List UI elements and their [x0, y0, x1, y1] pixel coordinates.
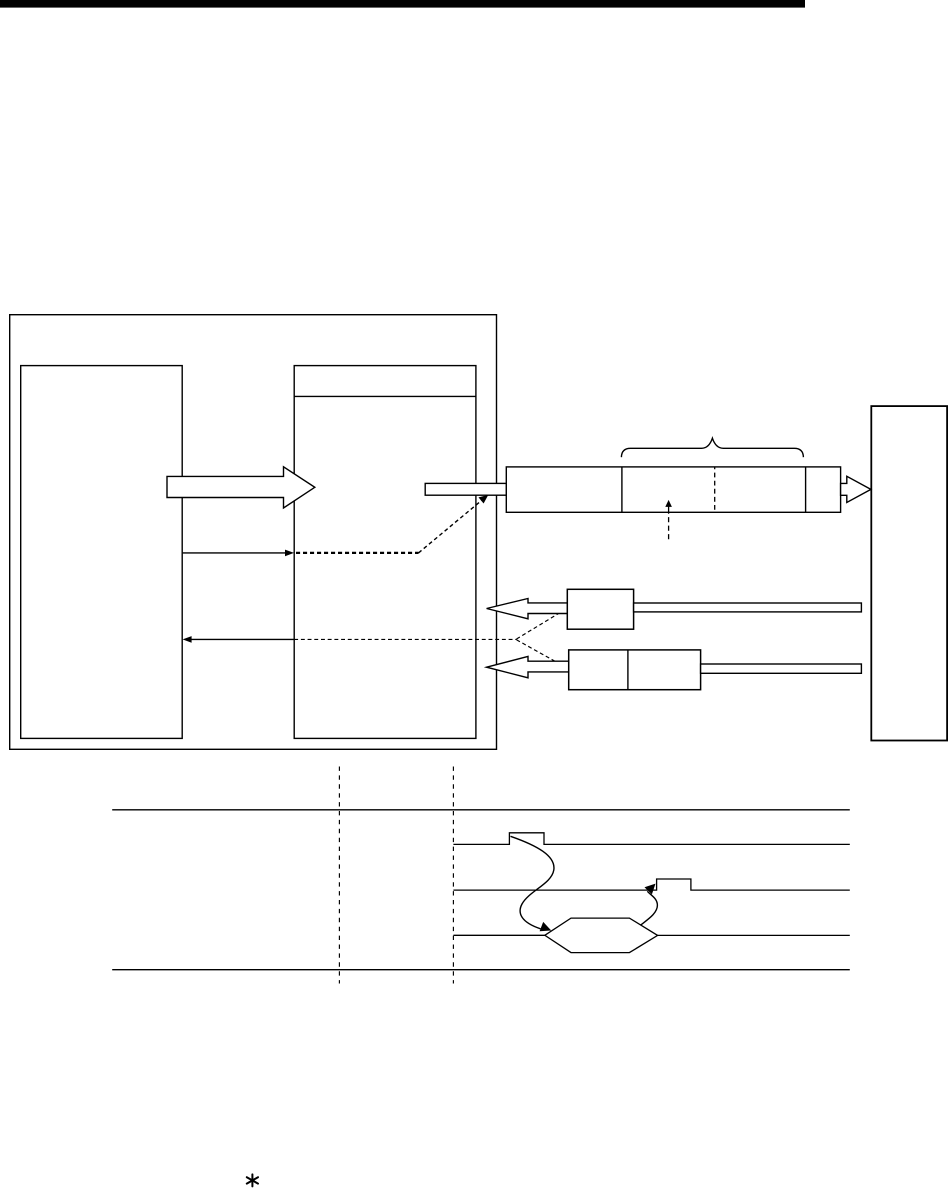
timing line 4 left segment — [453, 934, 544, 936]
timing line 2 with pulse — [453, 833, 849, 845]
sensor block 2 — [569, 650, 701, 690]
sensor block 1 — [567, 589, 633, 629]
left inner block — [21, 366, 183, 739]
cylinder divider 2 — [805, 467, 807, 512]
cylinder block — [506, 467, 840, 512]
sensor hollow arrow 1 (pointing left) — [487, 599, 569, 619]
dashed up arrow under cylinder — [668, 513, 670, 539]
right inner block — [294, 366, 476, 739]
cylinder divider 1 — [621, 467, 623, 512]
curved arrow 2 (hexagon to pulse3) — [641, 891, 658, 925]
right inner block header line — [294, 395, 476, 397]
cylinder exit hollow arrow — [841, 476, 871, 502]
outer enclosure box — [10, 315, 497, 750]
timing hexagon — [545, 918, 658, 953]
sensor hollow arrow 2 (pointing left) — [487, 656, 570, 677]
light dashed line y639 through right block — [294, 638, 516, 640]
timing line 1 — [112, 809, 850, 811]
shaft bar from right block into cylinder — [425, 483, 506, 495]
timing dashed vertical 2 — [452, 767, 454, 984]
dashed diagonal up to shaft bar — [419, 501, 482, 553]
dashed fork upper diagonal — [517, 614, 559, 639]
footnote asterisk — [247, 1174, 258, 1186]
cylinder dashed divider — [714, 467, 716, 512]
title bar — [0, 0, 805, 8]
sensor block 2 divider — [627, 650, 629, 690]
sensor rod 2 — [701, 664, 862, 673]
sensor rod 1 — [634, 603, 862, 612]
big hollow arrow (left block to right block) — [167, 467, 315, 508]
heavy dashed continuation y553 — [296, 552, 419, 554]
dashed fork lower diagonal — [517, 640, 559, 663]
timing line 3 with pulse — [453, 879, 849, 890]
right tall box — [871, 406, 947, 740]
thin solid arrow y639 (right block to left block) — [191, 638, 295, 640]
curved arrow 1 (pulse2 to hexagon) — [511, 836, 554, 929]
timing line 4 right segment — [658, 934, 850, 936]
timing dashed vertical 1 — [338, 767, 340, 984]
brace over cylinder — [621, 438, 803, 457]
timing line 5 — [112, 969, 850, 971]
thin solid arrow y553 (left block to right block) — [183, 552, 286, 554]
